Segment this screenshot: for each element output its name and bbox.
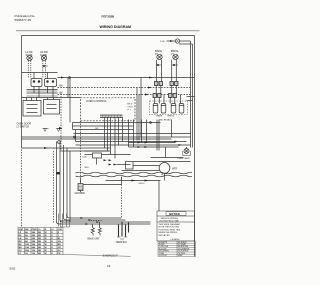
svg-text:P-40: P-40 — [160, 41, 165, 43]
svg-text:5/02: 5/02 — [10, 267, 16, 271]
svg-text:RR: RR — [19, 241, 23, 243]
svg-text:IN THIS PROD. MAY: IN THIS PROD. MAY — [160, 220, 180, 223]
svg-text:OVEN LAMP: OVEN LAMP — [177, 157, 190, 160]
svg-text:LEGEND: LEGEND — [171, 239, 180, 241]
svg-text:BK: BK — [60, 85, 64, 88]
svg-text:GN: GN — [58, 241, 62, 243]
svg-text:MTR: MTR — [172, 169, 177, 171]
svg-text:OR: OR — [58, 247, 62, 249]
svg-text:5995377-25: 5995377-25 — [15, 18, 32, 22]
svg-text:V-VIOLET: V-VIOLET — [159, 255, 168, 257]
svg-text:BK: BK — [38, 235, 42, 237]
svg-text:PK: PK — [58, 253, 61, 255]
svg-text:W: W — [45, 235, 47, 237]
svg-text:19: 19 — [107, 264, 111, 268]
svg-text:W: W — [45, 250, 47, 252]
svg-text:12A: 12A — [25, 243, 29, 246]
svg-text:BK: BK — [38, 250, 42, 252]
svg-text:BK: BK — [38, 247, 42, 249]
svg-text:BAKE UNIT: BAKE UNIT — [88, 238, 101, 241]
svg-text:W: W — [45, 232, 47, 234]
svg-text:BK: BK — [38, 241, 42, 243]
svg-text:SERVICE WIRING: SERVICE WIRING — [161, 218, 179, 220]
svg-text:PWR: PWR — [32, 229, 37, 231]
svg-text:BK: BK — [38, 253, 42, 255]
svg-text:UNIT: UNIT — [19, 229, 25, 231]
svg-text:FEF352B: FEF352B — [102, 15, 116, 19]
svg-text:WIRING DIAGRAM: WIRING DIAGRAM — [100, 25, 132, 29]
svg-text:GROUND: GROUND — [75, 193, 86, 195]
svg-text:BK 9: BK 9 — [128, 104, 134, 106]
svg-text:BR: BR — [19, 247, 23, 249]
svg-text:DLB: DLB — [83, 157, 88, 159]
svg-text:25A: 25A — [25, 249, 29, 252]
svg-text:NOTICE: NOTICE — [169, 212, 180, 216]
svg-text:POSITION, WIRE TIES: POSITION, WIRE TIES — [159, 229, 181, 231]
svg-text:LR: LR — [19, 238, 22, 240]
svg-text:GN-10: GN-10 — [139, 183, 146, 185]
svg-text:W: W — [45, 247, 47, 249]
svg-text:W: W — [45, 238, 47, 240]
svg-text:BROIL: BROIL — [168, 116, 175, 118]
svg-text:REPLACED: REPLACED — [159, 234, 171, 237]
svg-text:LT SWITCH: LT SWITCH — [17, 126, 30, 129]
svg-text:CLR: CLR — [58, 229, 63, 231]
svg-text:BK: BK — [38, 232, 42, 234]
svg-text:BR: BR — [58, 244, 62, 246]
svg-text:W: W — [45, 244, 47, 246]
svg-text:WHEN THE WIRES: WHEN THE WIRES — [159, 232, 178, 234]
svg-text:OVEN CONTROL: OVEN CONTROL — [86, 99, 107, 103]
svg-text:316262217: 316262217 — [103, 254, 118, 258]
svg-text:NOTE THE ROUTING: NOTE THE ROUTING — [159, 227, 180, 229]
svg-text:10A: 10A — [25, 246, 29, 249]
svg-text:BK: BK — [38, 238, 42, 240]
svg-text:W/BK: W/BK — [178, 255, 183, 257]
svg-text:BAKE: BAKE — [157, 115, 163, 118]
svg-text:TERM BLK: TERM BLK — [116, 242, 128, 244]
svg-text:THIS WIRE DIAGRAM: THIS WIRE DIAGRAM — [159, 223, 180, 226]
svg-text:BK: BK — [19, 244, 23, 246]
svg-text:W: W — [45, 241, 47, 243]
svg-text:W: W — [45, 253, 47, 255]
svg-text:OR 8: OR 8 — [128, 107, 134, 109]
svg-text:BK: BK — [38, 244, 42, 246]
svg-text:SW: SW — [25, 229, 28, 231]
svg-text:DBL RELAY: DBL RELAY — [159, 118, 171, 121]
